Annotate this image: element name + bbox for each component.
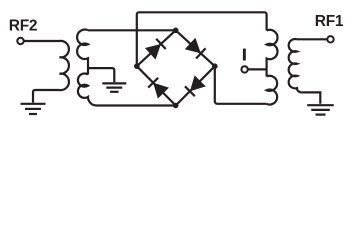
wire node R down and across to T2 primary bottom [215,66,267,104]
junction dot node R [212,63,218,69]
junction dot node B [173,103,179,109]
junction dot node T [173,28,179,34]
transformer T1 secondary winding upper half [77,30,88,75]
diode D2 (anode node T, cathode node R) [186,39,206,59]
terminal RF2 [17,38,23,44]
svg-text:RF1: RF1 [315,13,344,30]
terminal I [241,66,247,72]
ground T1 primary [21,104,46,114]
wire T1 primary bottom to ground [33,90,60,103]
wire node L up and top rail across to T2 primary top [137,12,267,66]
transformer T2 primary winding upper half [267,30,278,77]
transformer T2 primary winding lower half [267,76,278,105]
diode D3 (anode node B, cathode node L) [148,78,168,98]
terminal RF1 [327,36,333,42]
diode bridge edge T-R [176,30,215,66]
diode bridge edge L-T [137,30,176,66]
transformer T1 primary winding [60,41,69,90]
svg-text:RF2: RF2 [9,18,37,35]
wire T1 secondary top to node T (diode bridge top) [88,29,176,31]
transformer T2 secondary winding [289,39,302,92]
junction dot node L [134,63,140,69]
transformer T1 secondary winding lower half [78,74,97,106]
wire RF2 terminal to T1 primary top [24,40,60,42]
wire terminal I to T2 primary center tap [248,68,267,70]
wire RF1 terminal to T2 secondary top [297,38,327,40]
wire T1 secondary center tap to ground [88,68,114,82]
ground T1 center tap [102,83,126,91]
diode D1 (anode node L, cathode node T) [146,39,166,59]
diode bridge edge R-B [176,66,215,105]
wire T2 secondary bottom to ground [301,92,320,103]
circuit: double-balanced diode ring mixer [0,0,355,154]
diode D4 (anode node R, cathode node B) [185,76,205,96]
wire T1 secondary bottom to node B (diode bridge bottom) [97,104,176,106]
diode bridge edge B-L [137,66,176,105]
ground T2 secondary [307,105,334,114]
port label I [243,49,246,61]
